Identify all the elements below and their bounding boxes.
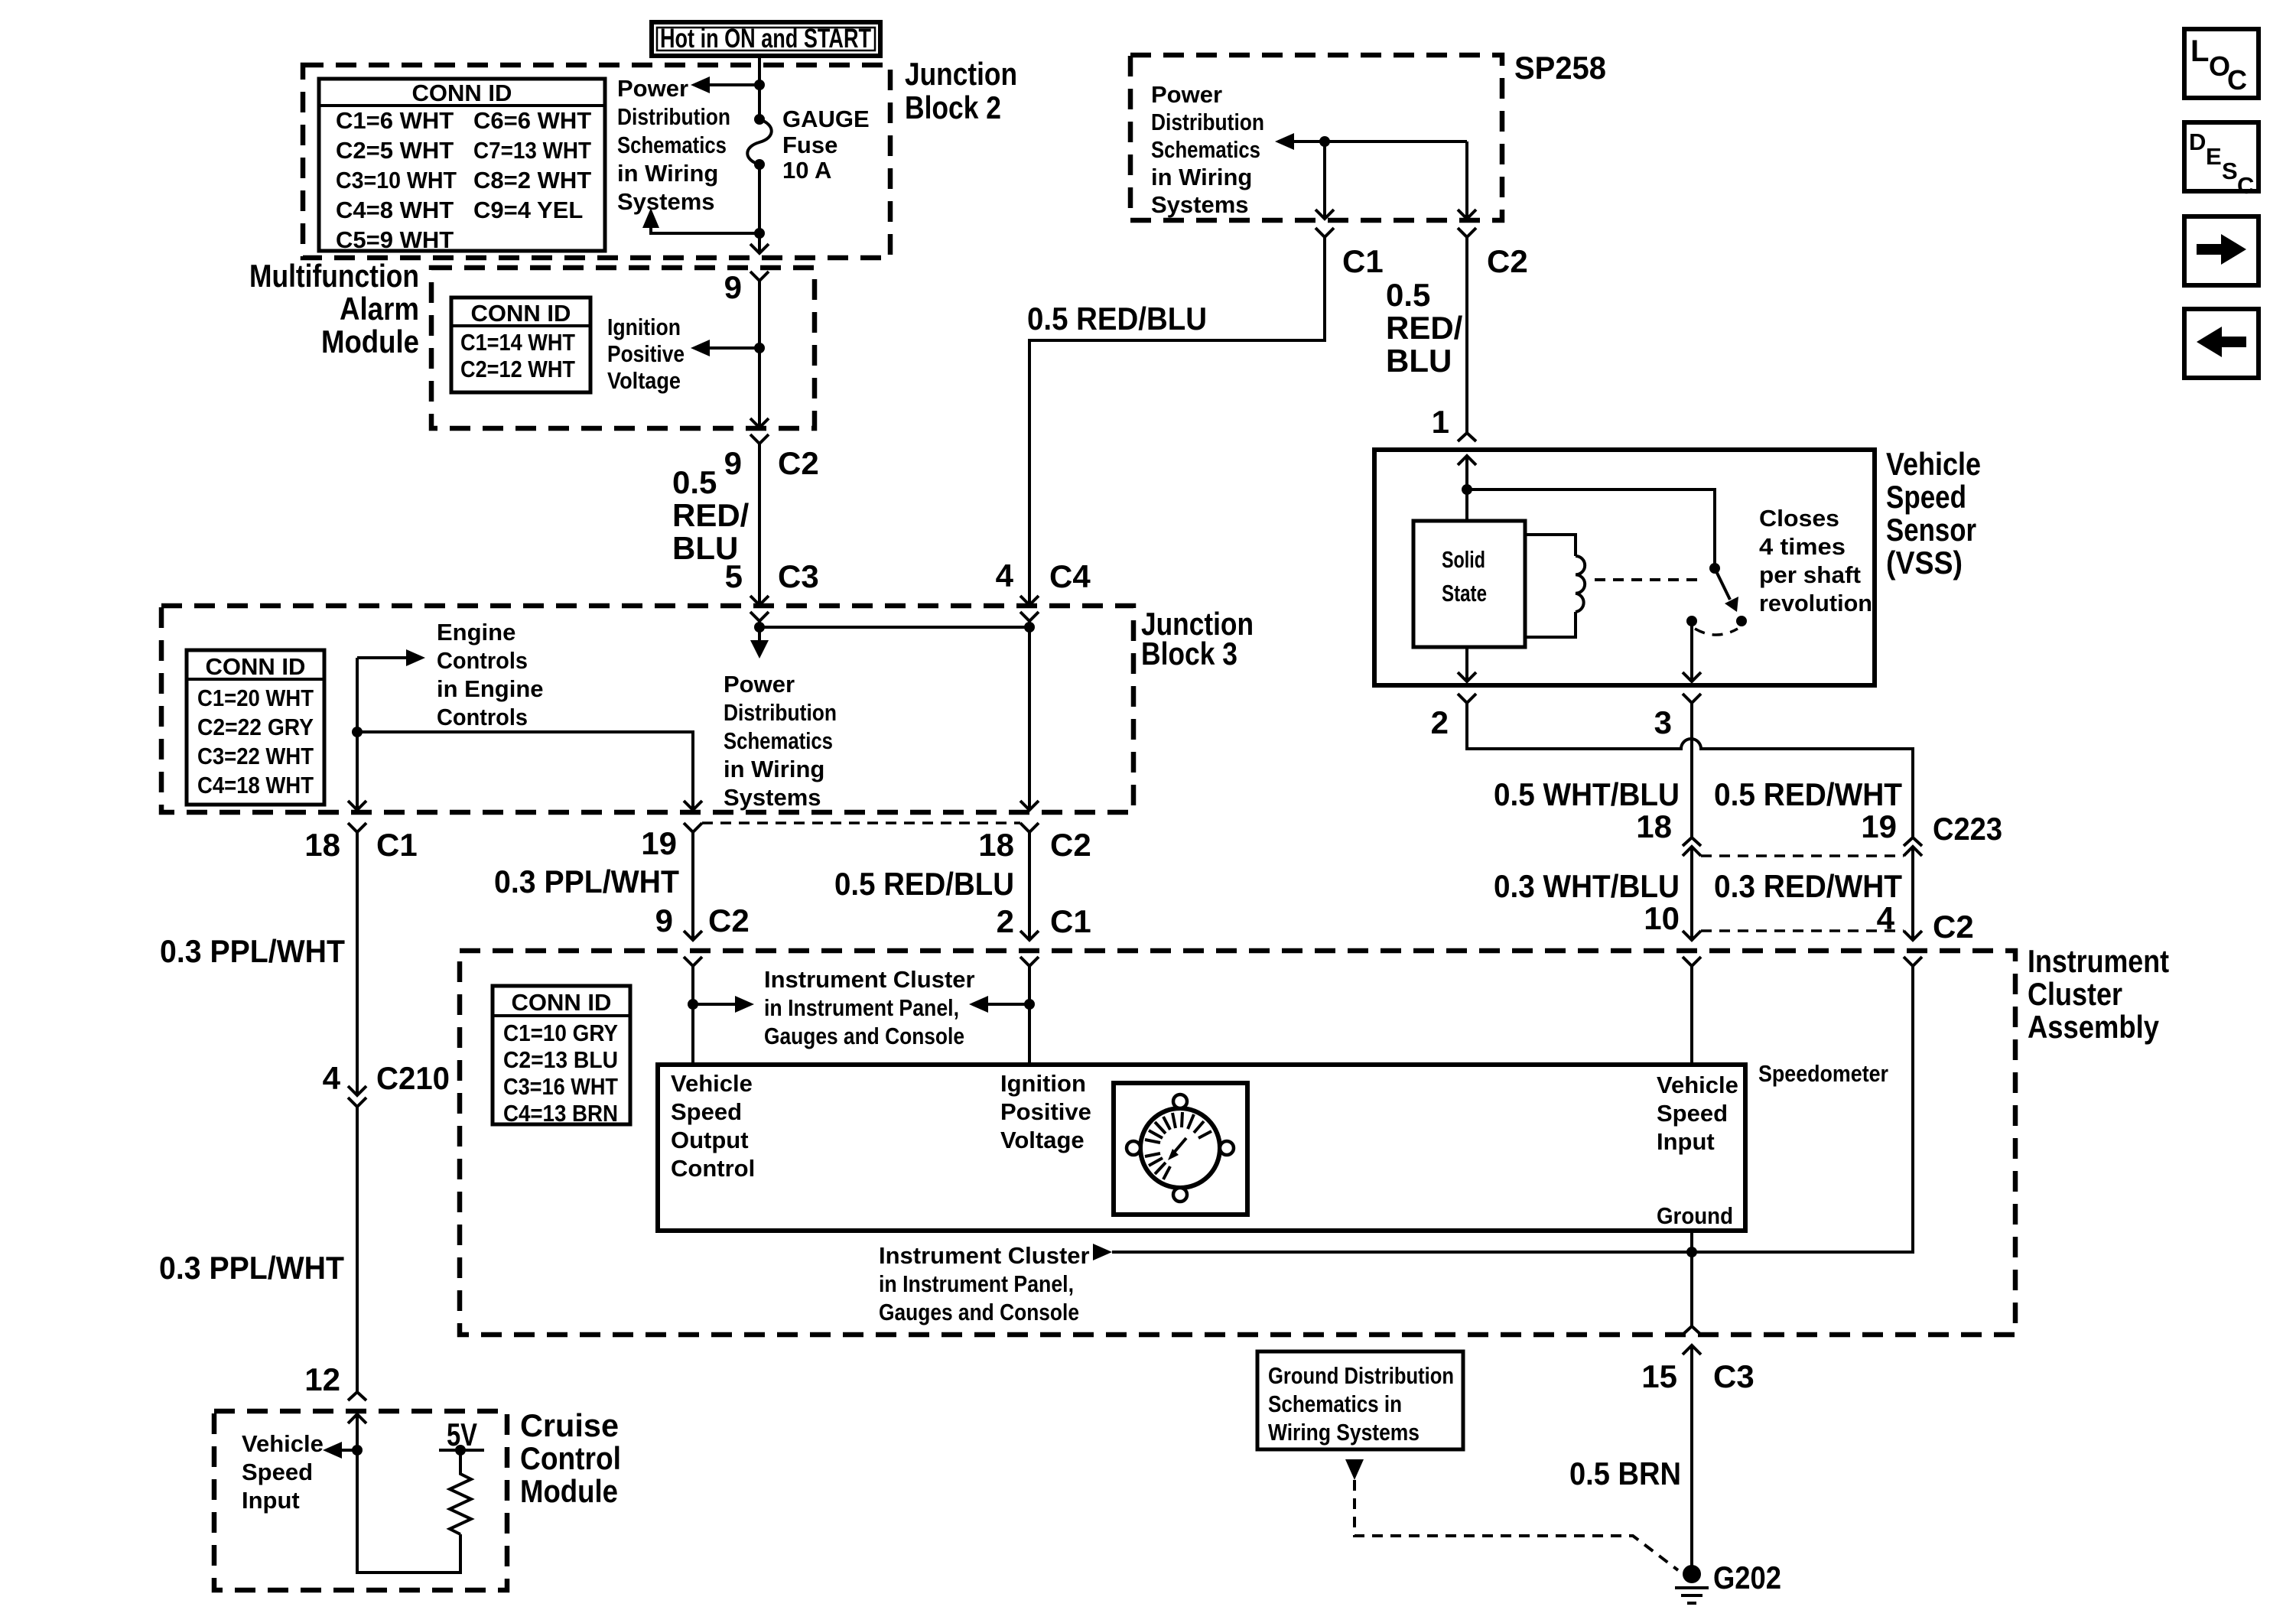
svg-text:C1=14 WHT: C1=14 WHT	[460, 329, 575, 356]
svg-text:Gauges and Console: Gauges and Console	[764, 1023, 964, 1049]
wire label 0.5 RED/ BLU (SP258 C2 wire)	[1386, 277, 1463, 379]
wire: 0.5 RED/BLU from MAM down to junction block 3	[758, 444, 761, 604]
node: vehicle speed input junction	[352, 1445, 363, 1456]
svg-text:C2: C2	[1933, 909, 1974, 945]
svg-text:Assembly: Assembly	[2028, 1009, 2160, 1045]
svg-text:Distribution: Distribution	[724, 699, 837, 726]
svg-text:RED/: RED/	[672, 497, 750, 533]
vehicle speed sensor box	[1374, 450, 1875, 685]
wire: arrow branch to ignition positive voltage label	[707, 346, 759, 350]
svg-text:Positive: Positive	[1000, 1098, 1091, 1125]
svg-text:C210: C210	[376, 1060, 450, 1096]
connector ID table of junction block 3	[187, 650, 324, 805]
connector: cluster pin 9 fork	[684, 957, 702, 966]
svg-text:0.3 PPL/WHT: 0.3 PPL/WHT	[160, 933, 345, 969]
svg-text:Ground Distribution: Ground Distribution	[1268, 1362, 1454, 1389]
wire: pin 19 down to cluster pin 9	[691, 832, 694, 940]
svg-text:C6=6 WHT: C6=6 WHT	[473, 107, 591, 134]
svg-text:Schematics in: Schematics in	[1268, 1390, 1402, 1417]
wire: arrow branch left to instrument cluster reference	[985, 1003, 1029, 1006]
wire: L-branch to power distribution up-arrow	[651, 226, 759, 233]
svg-text:4: 4	[996, 558, 1014, 594]
wire: arrow branch to power distribution (left)	[707, 83, 759, 86]
svg-text:C3=10 WHT: C3=10 WHT	[336, 167, 457, 194]
connector: C2 pin 18 fork below JB3	[1020, 823, 1039, 832]
svg-text:2: 2	[997, 903, 1014, 939]
connector: cruise module pin 12 fork above box	[348, 1392, 366, 1400]
connector ID table of multifunction alarm module	[451, 298, 590, 392]
svg-text:Solid: Solid	[1442, 546, 1485, 573]
svg-text:4: 4	[323, 1060, 341, 1096]
svg-text:C8=2 WHT: C8=2 WHT	[473, 167, 591, 194]
svg-text:Ground: Ground	[1657, 1202, 1733, 1229]
svg-text:Cruise: Cruise	[520, 1407, 619, 1443]
svg-text:GAUGE: GAUGE	[782, 106, 870, 132]
svg-text:C2=5 WHT: C2=5 WHT	[336, 137, 454, 164]
svg-text:Wiring Systems: Wiring Systems	[1268, 1419, 1420, 1446]
svg-text:0.5 BRN: 0.5 BRN	[1569, 1456, 1681, 1491]
connector: JB3 C4 fork inside (pin 4 feed)	[1020, 612, 1039, 621]
svg-text:in Wiring: in Wiring	[724, 756, 824, 782]
label: ignition positive voltage (speedometer)	[1000, 1070, 1091, 1153]
svg-text:C3: C3	[778, 558, 819, 594]
junction block 3 dashed module box	[161, 606, 1133, 812]
svg-text:4 times: 4 times	[1759, 533, 1846, 560]
instrument cluster assembly name label	[2028, 943, 2169, 1045]
svg-text:in Wiring: in Wiring	[1151, 164, 1252, 190]
svg-text:C: C	[2237, 172, 2254, 199]
svg-text:C2=22 GRY: C2=22 GRY	[197, 714, 314, 740]
multifunction alarm module dashed box	[431, 268, 815, 428]
svg-text:12: 12	[304, 1361, 340, 1397]
svg-text:0.3 PPL/WHT: 0.3 PPL/WHT	[494, 864, 679, 899]
connector: cluster pin 15 fork above boundary	[1683, 1326, 1701, 1335]
svg-text:0.3 WHT/BLU: 0.3 WHT/BLU	[1494, 868, 1680, 904]
svg-text:C223: C223	[1933, 811, 2002, 847]
wire: C210 down to cruise control module pin 12	[356, 1107, 359, 1392]
node: JB3 splice junction	[352, 727, 363, 737]
label: vehicle speed input	[1657, 1072, 1738, 1155]
svg-text:Vehicle: Vehicle	[1657, 1072, 1738, 1098]
connector C210 inline arrow+fork	[348, 1086, 366, 1095]
instrument cluster assembly dashed box	[460, 951, 2015, 1335]
svg-text:Systems: Systems	[617, 188, 715, 215]
label: GAUGE Fuse 10 A	[782, 106, 870, 184]
svg-text:C: C	[2227, 64, 2247, 96]
svg-text:Systems: Systems	[1151, 191, 1249, 218]
svg-text:9: 9	[724, 269, 742, 305]
dashed mechanical link coil to switch	[1595, 578, 1702, 581]
svg-text:Ignition: Ignition	[607, 314, 681, 340]
icon box next arrow	[2184, 216, 2259, 285]
svg-text:Controls: Controls	[437, 647, 528, 674]
wire: 0.3 WHT/BLU down to cluster pin 10	[1690, 847, 1693, 940]
connector: cluster pin 10 entry arrow	[1683, 931, 1701, 940]
connector: C2 fork below MAM	[750, 434, 769, 444]
svg-text:0.5 RED/WHT: 0.5 RED/WHT	[1714, 776, 1902, 812]
connector: pin 3 fork below box	[1683, 694, 1701, 703]
connector: VSS pin 2 exit arrow	[1458, 672, 1476, 681]
svg-text:Schematics: Schematics	[1151, 136, 1260, 163]
svg-text:S: S	[2222, 158, 2238, 184]
svg-text:Voltage: Voltage	[1000, 1127, 1085, 1153]
connector: JB3 C4 pin 4 entry arrow	[1020, 596, 1039, 605]
svg-text:Distribution: Distribution	[617, 103, 730, 130]
svg-text:Speed: Speed	[242, 1459, 313, 1485]
svg-text:0.5 RED/BLU: 0.5 RED/BLU	[834, 866, 1014, 902]
svg-text:Input: Input	[1657, 1128, 1715, 1155]
gauge icon of speedometer	[1114, 1083, 1247, 1215]
svg-text:Controls: Controls	[437, 704, 528, 730]
svg-text:Sensor: Sensor	[1886, 512, 1976, 548]
connector: cruise module pin 12 entry arrow inside box	[348, 1414, 366, 1423]
connector: SP258 C1 exit arrow and fork	[1315, 210, 1334, 219]
wire: pin 2 output hops over pin 3 wire to right column	[1467, 703, 1913, 838]
svg-text:L: L	[2190, 34, 2209, 68]
svg-text:Block 3: Block 3	[1141, 636, 1237, 672]
svg-text:CONN ID: CONN ID	[471, 300, 571, 327]
svg-text:(VSS): (VSS)	[1886, 545, 1963, 581]
fuse GAUGE 10A	[747, 114, 772, 170]
wire: 0.3 RED/WHT down to cluster pin 4	[1911, 847, 1914, 940]
junction block 2 name label	[905, 56, 1017, 125]
resistor R pull-up in cruise module	[450, 1450, 471, 1534]
svg-text:19: 19	[1861, 808, 1897, 844]
wire: arrow branch right to instrument cluster reference	[693, 1003, 738, 1006]
svg-text:D: D	[2189, 128, 2206, 155]
wire label 0.5 RED/ BLU (vertical wire)	[672, 464, 750, 566]
svg-text:0.5 WHT/BLU: 0.5 WHT/BLU	[1494, 776, 1680, 812]
svg-text:18: 18	[1636, 808, 1672, 844]
svg-text:RED/: RED/	[1386, 310, 1463, 346]
connector: JB3 C1 pin 18 exit arrow	[348, 801, 366, 810]
svg-text:C2: C2	[778, 445, 819, 481]
node: cluster right reference junction	[1024, 999, 1035, 1010]
svg-text:C1: C1	[1342, 243, 1384, 279]
svg-text:Speed: Speed	[1886, 479, 1966, 515]
cruise control module name label	[520, 1407, 621, 1509]
label: closes 4 times per shaft revolution	[1759, 505, 1872, 616]
icon box back arrow	[2184, 309, 2259, 378]
connector: MAM pin 9 exit arrow	[750, 418, 769, 428]
svg-text:C2=13 BLU: C2=13 BLU	[503, 1046, 618, 1073]
connector: JB3 C3 fork inside (pin 5 feed)	[750, 612, 769, 621]
svg-text:C4: C4	[1049, 558, 1091, 594]
wire: SP258 C2 down to VSS pin 1	[1465, 237, 1468, 433]
svg-text:Voltage: Voltage	[607, 367, 681, 394]
node: ground junction below speedometer	[1686, 1247, 1697, 1257]
svg-text:2: 2	[1431, 704, 1449, 740]
connector: JB3 C2 pin 19 exit arrow	[684, 801, 702, 810]
cruise control module dashed box	[214, 1411, 507, 1590]
wire: pin 12 into cruise module	[357, 1414, 460, 1573]
svg-text:G202: G202	[1713, 1560, 1781, 1595]
connector ID table of junction block 2	[319, 79, 605, 253]
svg-text:Control: Control	[671, 1155, 755, 1182]
wire: ignition feed through MAM	[758, 281, 761, 428]
solid state box	[1413, 521, 1525, 647]
connector: C1 fork below JB3	[348, 823, 366, 832]
connector: cluster pin 4 fork	[1904, 957, 1922, 966]
label: vehicle speed output control	[671, 1070, 755, 1182]
wire: cluster pin 2 down to speedometer	[1028, 966, 1031, 1065]
svg-text:Gauges and Console: Gauges and Console	[879, 1299, 1079, 1325]
wire: speedometer ground pin drop	[1690, 1231, 1693, 1326]
svg-text:Instrument: Instrument	[2028, 943, 2169, 979]
svg-text:Output: Output	[671, 1127, 749, 1153]
svg-text:in Wiring: in Wiring	[617, 160, 718, 187]
svg-text:Power: Power	[724, 671, 795, 698]
svg-text:in Instrument Panel,: in Instrument Panel,	[764, 994, 959, 1021]
wire: SP258 C1 drop	[1323, 141, 1326, 219]
connector: C2 pin 19 fork below JB3	[684, 823, 702, 832]
connector C223 right pair fork+arrow	[1904, 838, 1922, 846]
svg-text:Module: Module	[321, 324, 419, 359]
speedometer box	[658, 1065, 1745, 1231]
connector ID table of instrument cluster	[493, 986, 630, 1127]
svg-text:Multifunction: Multifunction	[249, 258, 419, 294]
svg-text:CONN ID: CONN ID	[412, 80, 512, 106]
svg-text:C1=6 WHT: C1=6 WHT	[336, 107, 454, 134]
node: ignition voltage junction	[754, 343, 765, 353]
label: instrument cluster reference (bottom)	[879, 1242, 1090, 1325]
dashed ground reference path to G202	[1355, 1480, 1678, 1570]
connector: JB2 pin 9 exit arrow	[750, 244, 769, 253]
svg-text:E: E	[2206, 143, 2222, 170]
svg-text:CONN ID: CONN ID	[206, 653, 306, 680]
svg-text:in Instrument Panel,: in Instrument Panel,	[879, 1270, 1074, 1297]
node: fuse output junction	[754, 228, 765, 239]
node: VSS internal junction	[1462, 484, 1472, 495]
wire: pin 3 output down to C223	[1690, 703, 1693, 838]
svg-text:0.5: 0.5	[672, 464, 717, 500]
wire: C3 feed to splice and power distribution arrow	[758, 621, 761, 641]
label: vehicle speed input (cruise module)	[242, 1430, 324, 1514]
svg-text:Instrument Cluster: Instrument Cluster	[879, 1242, 1090, 1269]
splice pack SP258 dashed box	[1130, 55, 1502, 220]
arrow: ground distribution down reference	[1345, 1459, 1364, 1480]
svg-text:Schematics: Schematics	[617, 132, 727, 158]
connector: SP258 C2 exit arrow and fork	[1458, 210, 1476, 219]
label: power distribution reference in JB3	[724, 671, 837, 811]
icon box LOC	[2184, 29, 2259, 98]
connector: multifunction alarm module entry fork	[750, 272, 769, 281]
svg-text:BLU: BLU	[1386, 343, 1452, 379]
label: power distribution reference in JB2	[617, 75, 730, 215]
connector: cluster pin 15 exit arrow below boundary	[1683, 1345, 1701, 1355]
svg-text:Ignition: Ignition	[1000, 1070, 1086, 1097]
wire: SP258 bus with arrow to power distribution	[1291, 140, 1467, 143]
svg-text:C3: C3	[1713, 1358, 1755, 1394]
svg-text:Power: Power	[1151, 81, 1222, 108]
svg-text:C3=16 WHT: C3=16 WHT	[503, 1073, 618, 1100]
svg-text:0.5: 0.5	[1386, 277, 1430, 313]
svg-text:Vehicle: Vehicle	[671, 1070, 753, 1097]
svg-text:C2: C2	[1487, 243, 1528, 279]
wire: pin 1 into solid state	[1465, 456, 1468, 521]
svg-text:10 A: 10 A	[782, 157, 831, 184]
svg-text:C1=20 WHT: C1=20 WHT	[197, 685, 314, 711]
wire: pin 4 down the right side to ground node	[1112, 966, 1913, 1252]
wire: switch output to pin 3	[1690, 621, 1693, 681]
svg-text:3: 3	[1654, 704, 1672, 740]
wire: fuse output down to JB2 exit	[758, 164, 761, 252]
wire: C4 column down through JB3	[1028, 621, 1031, 810]
svg-text:in Engine: in Engine	[437, 675, 544, 702]
dashed connector line JB3 C2	[702, 821, 1020, 825]
connector: cluster pin 2 fork	[1020, 957, 1039, 966]
svg-text:C2=12 WHT: C2=12 WHT	[460, 356, 575, 382]
svg-text:Block 2: Block 2	[905, 89, 1001, 125]
node: JB2 feed junction	[754, 80, 765, 90]
svg-text:Vehicle: Vehicle	[1886, 446, 1981, 482]
connector: JB3 C3 pin 5 entry arrow	[750, 596, 769, 605]
wire: branch to switch feed	[1467, 490, 1715, 564]
svg-text:Input: Input	[242, 1487, 300, 1514]
wire: hot feed from header into JB2	[758, 54, 761, 119]
connector: VSS pin 3 exit arrow	[1683, 672, 1701, 681]
svg-text:Instrument Cluster: Instrument Cluster	[764, 966, 975, 993]
node: cluster left reference junction	[688, 999, 698, 1010]
icon box DESC	[2184, 122, 2259, 199]
svg-text:C9=4 YEL: C9=4 YEL	[473, 197, 583, 223]
connector: VSS pin 1 entry arrow inside box	[1458, 456, 1476, 465]
svg-text:C1: C1	[1050, 903, 1091, 939]
svg-text:Systems: Systems	[724, 784, 821, 811]
junction block 2 dashed module box	[303, 65, 890, 258]
svg-text:Cluster: Cluster	[2028, 976, 2122, 1012]
svg-text:Module: Module	[520, 1473, 618, 1509]
node: JB3 ignition splice left	[754, 622, 765, 633]
svg-text:9: 9	[655, 903, 673, 938]
connector: cluster pin 2 entry arrow	[1020, 931, 1039, 940]
dashed connector line C223	[1701, 854, 1904, 857]
fuse box header "Hot in ON and START"	[652, 22, 880, 56]
svg-text:Speed: Speed	[1657, 1100, 1728, 1127]
svg-text:Fuse: Fuse	[782, 132, 837, 158]
svg-text:Control: Control	[520, 1440, 621, 1476]
svg-text:19: 19	[641, 825, 677, 861]
wire: arrow branch to vehicle speed input label	[339, 1449, 357, 1452]
svg-text:Hot in ON and START: Hot in ON and START	[660, 24, 871, 54]
label: power distribution reference in SP258	[1151, 81, 1264, 218]
svg-text:Vehicle: Vehicle	[242, 1430, 324, 1457]
svg-text:Schematics: Schematics	[724, 727, 833, 754]
svg-text:Speed: Speed	[671, 1098, 742, 1125]
svg-text:0.5 RED/BLU: 0.5 RED/BLU	[1027, 301, 1207, 337]
svg-text:C3=22 WHT: C3=22 WHT	[197, 743, 314, 769]
connector: pin 2 fork below box	[1458, 694, 1476, 703]
svg-text:Junction: Junction	[905, 56, 1017, 92]
svg-text:C1: C1	[376, 827, 418, 863]
wire: splice link C3 to C4 column	[759, 626, 1029, 629]
wire: pin 10 into vehicle speed input	[1690, 966, 1693, 1065]
connector C223 left pair fork+arrow	[1683, 838, 1701, 846]
wire: cluster pin 9 down to speedometer	[691, 966, 694, 1065]
multifunction alarm module name label	[249, 258, 419, 359]
coil of VSS	[1525, 535, 1576, 637]
svg-text:18: 18	[978, 827, 1014, 863]
svg-text:Engine: Engine	[437, 619, 515, 646]
arrow: instrument cluster reference (bottom)	[1093, 1244, 1112, 1260]
svg-text:18: 18	[304, 827, 340, 863]
svg-text:0.3 PPL/WHT: 0.3 PPL/WHT	[159, 1250, 344, 1286]
svg-text:C2: C2	[708, 903, 750, 938]
junction block 3 name label	[1141, 606, 1254, 672]
connector: cluster pin 4 entry arrow	[1904, 931, 1922, 940]
vehicle speed sensor name label	[1886, 446, 1981, 581]
connector: cluster pin 10 fork	[1683, 957, 1701, 966]
arrow: power distribution down reference	[750, 640, 769, 659]
svg-text:C2: C2	[1050, 827, 1091, 863]
5V supply bar and node	[439, 1449, 484, 1452]
svg-text:Alarm: Alarm	[340, 291, 419, 327]
svg-text:C1=10 GRY: C1=10 GRY	[503, 1020, 618, 1046]
svg-text:C5=9 WHT: C5=9 WHT	[336, 226, 454, 253]
wire: JB3 C1 pin 18 down to C210	[356, 832, 359, 1095]
svg-text:C4=18 WHT: C4=18 WHT	[197, 772, 314, 798]
svg-text:Positive: Positive	[607, 340, 685, 367]
svg-text:Power: Power	[617, 75, 688, 102]
ground G202 symbol	[1675, 1565, 1709, 1603]
svg-text:C4=8 WHT: C4=8 WHT	[336, 197, 454, 223]
svg-text:15: 15	[1641, 1358, 1677, 1394]
wire: 0.5 BRN ground wire to G202	[1690, 1345, 1693, 1569]
switch contacts of VSS	[1686, 563, 1747, 635]
svg-text:Speedometer: Speedometer	[1758, 1060, 1888, 1087]
connector: cluster pin 9 entry arrow	[684, 931, 702, 940]
node: SP258 splice junction	[1319, 136, 1330, 147]
svg-text:SP258: SP258	[1514, 50, 1606, 86]
svg-text:Distribution: Distribution	[1151, 109, 1264, 135]
svg-text:State: State	[1442, 580, 1487, 607]
svg-text:C4=13 BRN: C4=13 BRN	[503, 1100, 618, 1127]
wire: SP258 C2 drop	[1465, 141, 1468, 219]
svg-text:C7=13 WHT: C7=13 WHT	[473, 137, 591, 164]
svg-text:5: 5	[725, 558, 743, 594]
node: JB3 ignition splice right	[1024, 622, 1035, 633]
svg-text:Closes: Closes	[1759, 505, 1839, 532]
label: ignition positive voltage	[607, 314, 685, 394]
wire: C1 0.5 RED/BLU link to junction block 3 C4	[1029, 237, 1325, 604]
wire: engine controls arrow branch	[357, 656, 409, 659]
wire: splice link to pin 19 drop	[357, 732, 693, 810]
svg-text:10: 10	[1644, 900, 1680, 936]
svg-text:1: 1	[1432, 404, 1449, 440]
svg-text:per shaft: per shaft	[1759, 561, 1861, 588]
connector: JB3 C2 pin 18 exit arrow	[1020, 801, 1039, 810]
svg-text:9: 9	[724, 445, 742, 481]
svg-text:revolution: revolution	[1759, 590, 1872, 616]
svg-text:CONN ID: CONN ID	[512, 989, 612, 1016]
wire: JB3 C1 pin 18 drop	[356, 658, 359, 810]
connector: VSS pin 1 fork above box	[1458, 433, 1476, 441]
label: instrument cluster reference (top)	[764, 966, 975, 1049]
label: engine controls reference	[437, 619, 544, 730]
wire: pin 18 down to cluster pin 2	[1028, 832, 1031, 940]
svg-text:0.3 RED/WHT: 0.3 RED/WHT	[1714, 868, 1902, 904]
dashed connector line cluster C2	[1701, 929, 1904, 932]
wire: solid state output to pin 2	[1465, 647, 1468, 681]
ground distribution reference box	[1257, 1351, 1463, 1449]
